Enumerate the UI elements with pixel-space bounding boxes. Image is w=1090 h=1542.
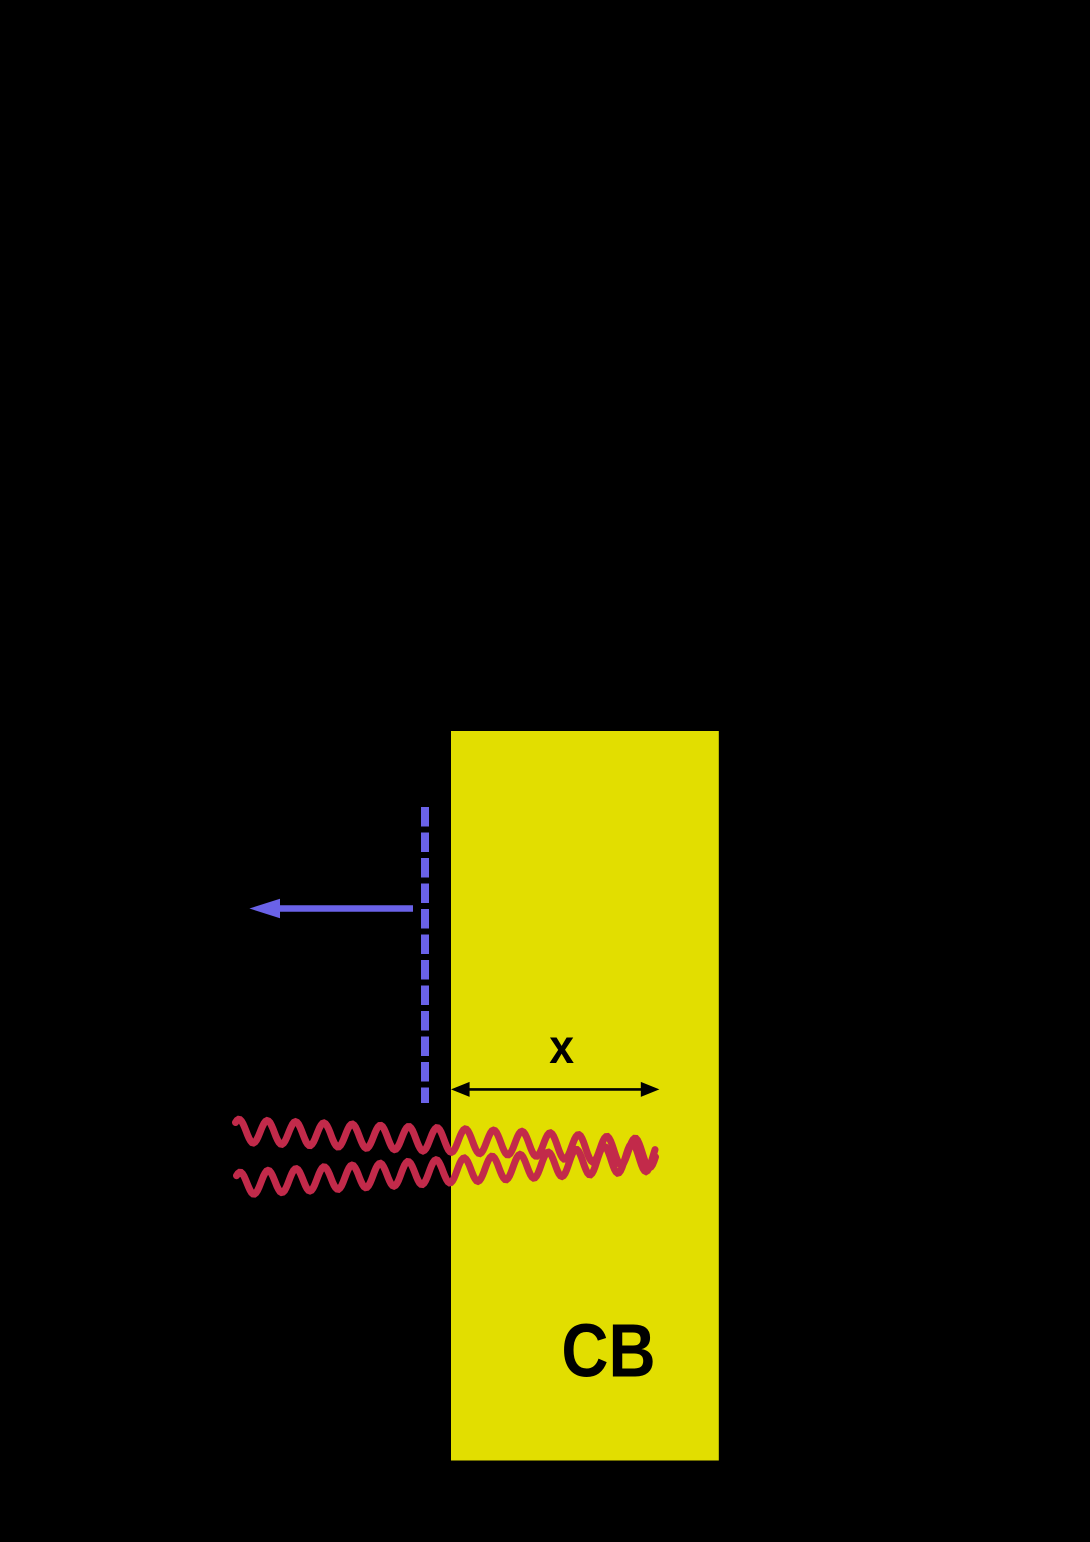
svg-text:CB: CB [561,1308,655,1392]
svg-text:x: x [549,1020,574,1074]
